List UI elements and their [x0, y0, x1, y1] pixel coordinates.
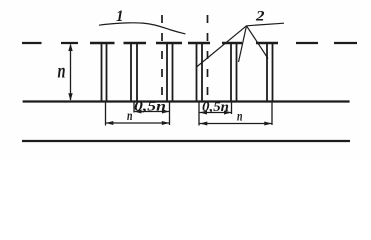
dimension n bottom-left line — [106, 122, 169, 124]
arrow left (0.5n right dim) — [200, 111, 208, 115]
main soil line — [23, 100, 350, 102]
arrow right (0.5n right dim) — [224, 111, 232, 115]
electrode rod 3 — [167, 44, 173, 101]
electrode rod 5 — [231, 44, 237, 101]
arrow right (0.5n left dim) — [162, 110, 170, 114]
centerline A (dashed vertical) — [161, 15, 163, 101]
centerline B (dashed vertical) — [207, 15, 209, 101]
diagram: grounding electrodes figure — [0, 0, 371, 161]
svg-text:0,5n: 0,5n — [134, 99, 166, 114]
arrow left (0.5n left dim) — [134, 110, 142, 114]
dimension 0.5n left line — [135, 111, 170, 113]
dimension 0.5n right line — [200, 112, 232, 114]
svg-text:n: n — [58, 61, 66, 83]
svg-text:n: n — [127, 109, 133, 124]
ground surface dashed line (left dashes) — [22, 42, 78, 44]
arrow up (n depth top) — [68, 44, 72, 52]
electrode rod 1 — [102, 44, 107, 101]
ground surface dashed line (right dashes) — [296, 42, 357, 44]
leader lines for label 2 — [197, 23, 285, 67]
bottom soil line — [22, 140, 350, 142]
svg-text:0,5n: 0,5n — [202, 99, 229, 114]
arrow left (n bottom-right dim) — [200, 122, 208, 126]
arrowheads — [68, 44, 271, 126]
dimension n bottom-right line — [200, 123, 272, 125]
electrode cap 1 — [90, 42, 115, 45]
electrode rod 6 — [267, 44, 273, 101]
electrode cap 2 — [124, 42, 147, 45]
electrode cap 3 — [156, 42, 182, 45]
arrow left (n bottom-left dim) — [106, 121, 114, 125]
arrow down (n depth bottom) — [68, 93, 72, 101]
electrode cap 5 — [222, 42, 242, 45]
arrow right (n bottom-left dim) — [162, 121, 170, 125]
electrode rod 2 — [131, 44, 137, 101]
extension lines below soil line — [106, 102, 273, 126]
electrode cap 6 — [256, 42, 278, 45]
svg-text:1: 1 — [116, 8, 124, 25]
arrow right (n bottom-right dim) — [264, 122, 272, 126]
dimension n (depth) line — [70, 45, 72, 101]
electrode rod 4 — [197, 44, 203, 101]
electrode cap 4 — [188, 42, 210, 45]
svg-text:n: n — [237, 110, 243, 125]
leader line for label 1 — [99, 23, 186, 34]
svg-text:2: 2 — [255, 9, 265, 25]
